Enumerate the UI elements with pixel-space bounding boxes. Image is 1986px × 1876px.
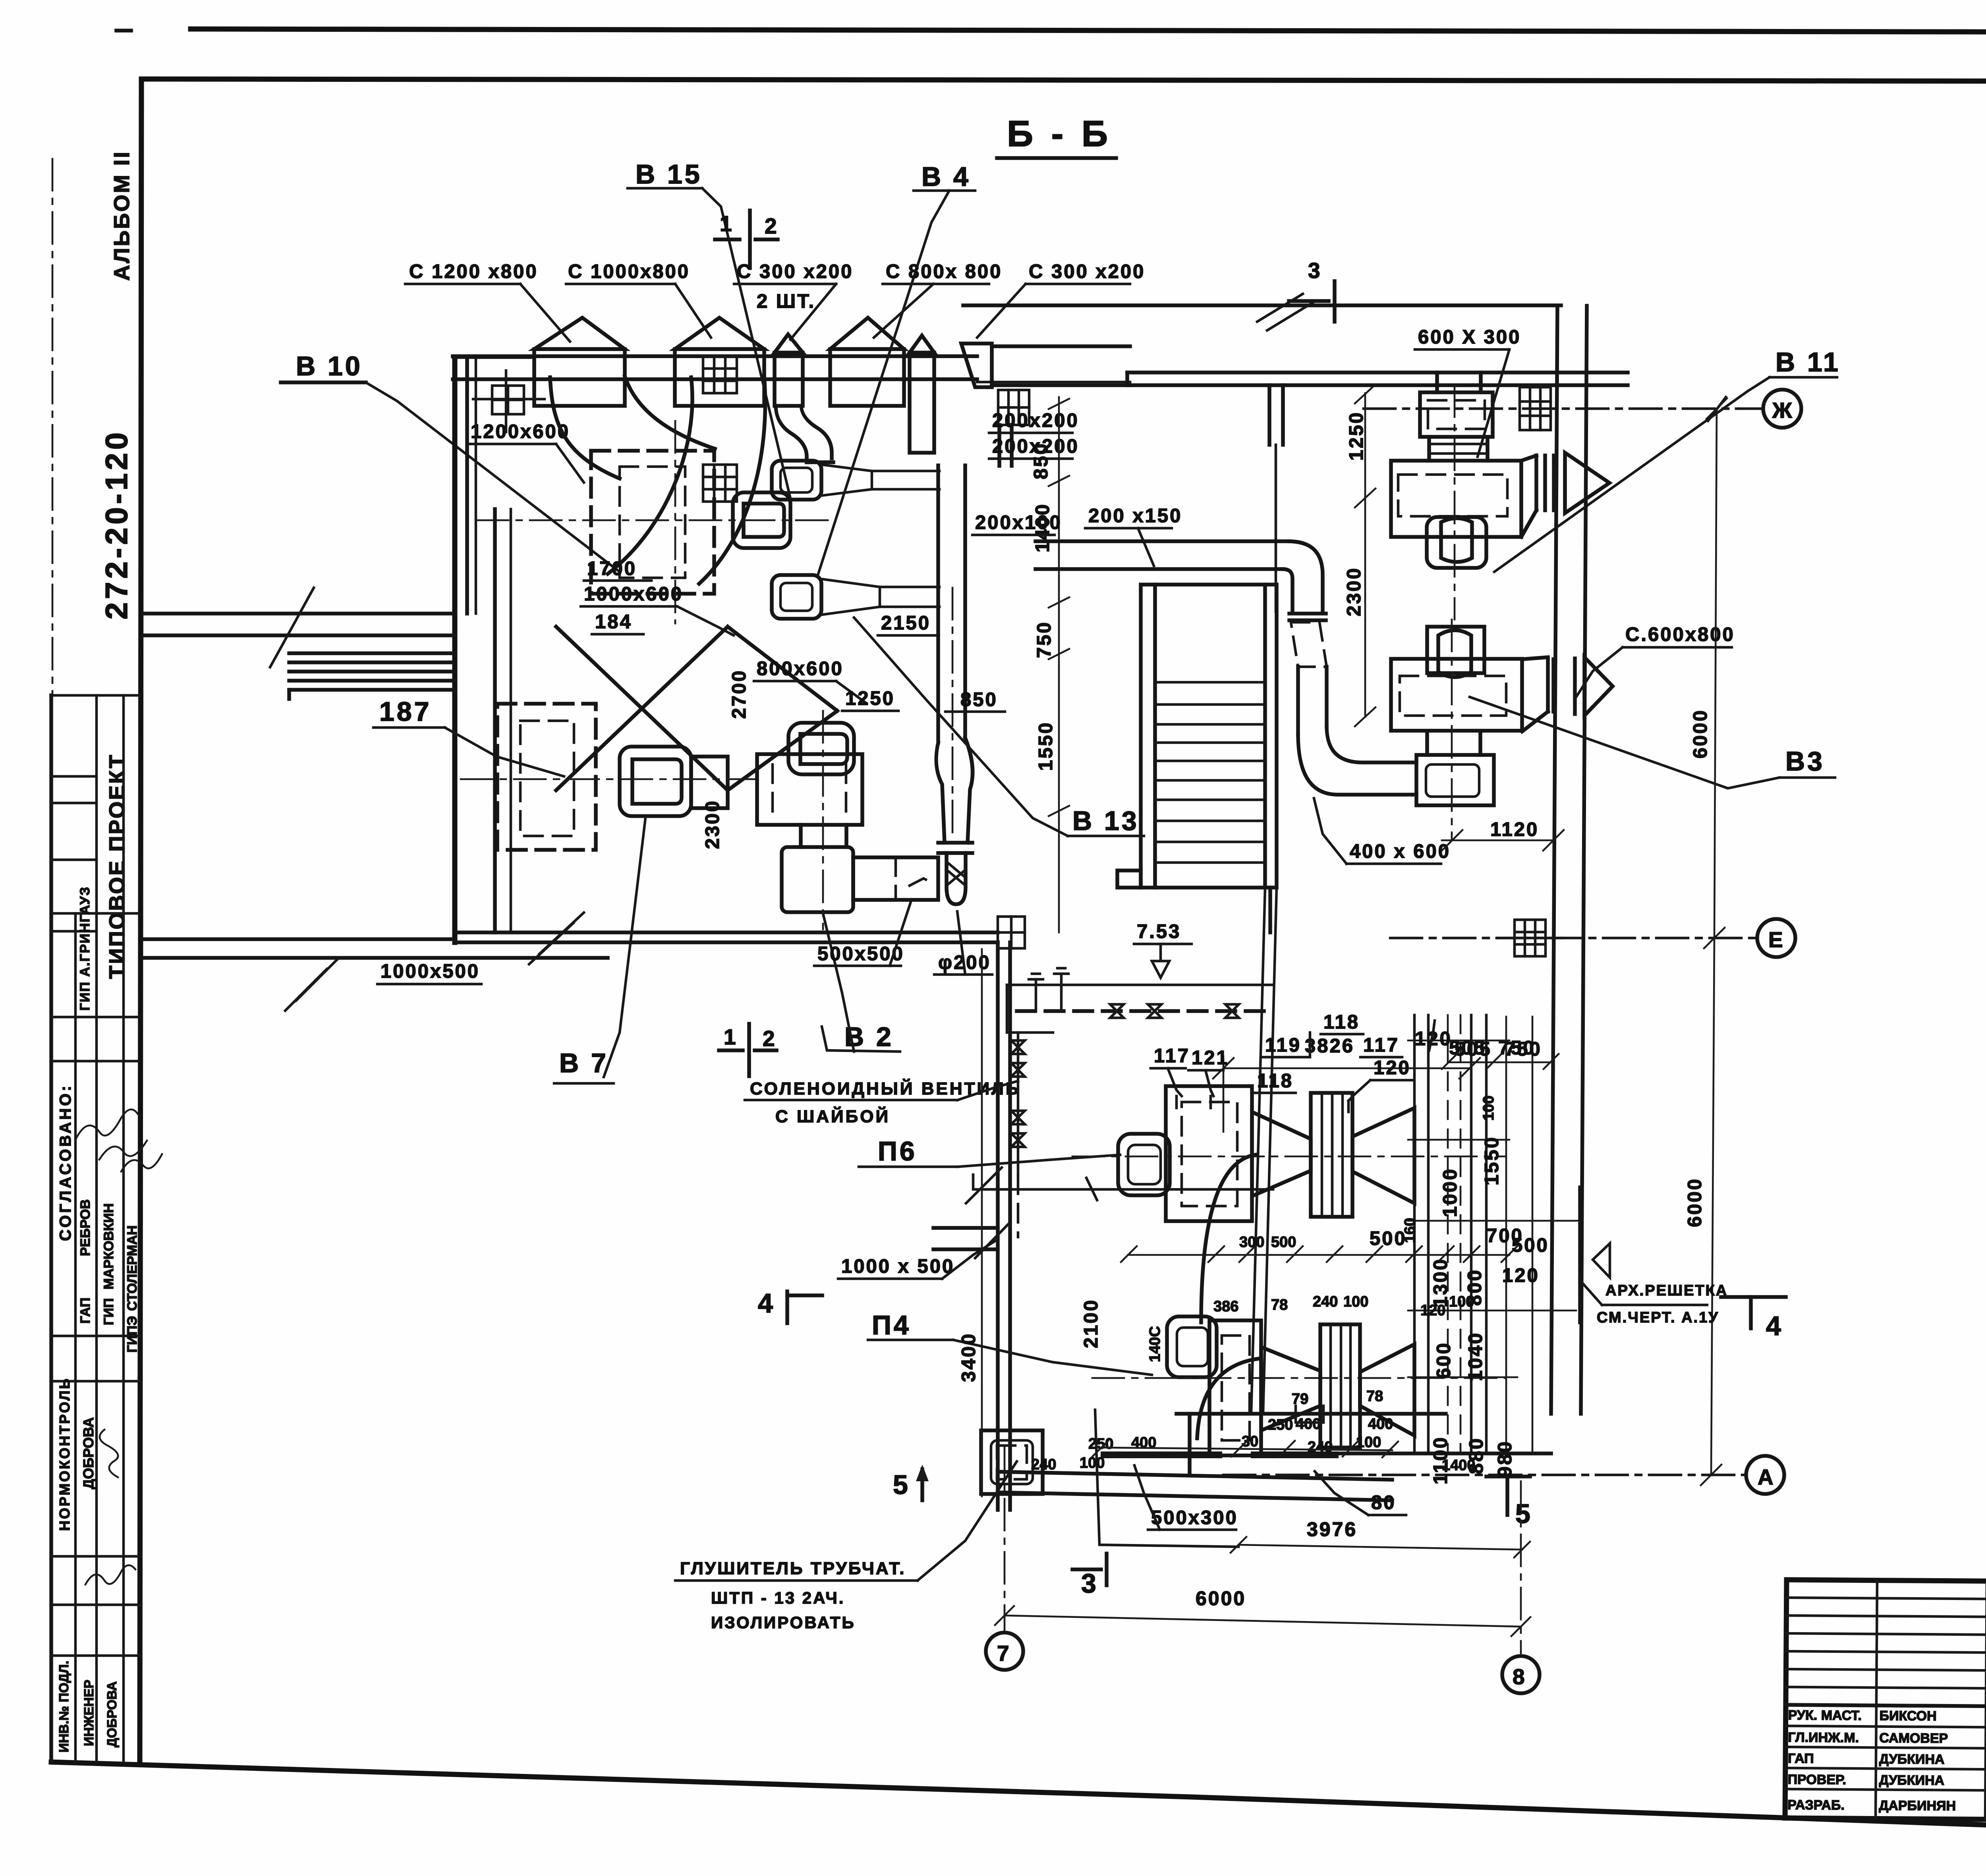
V3 bottom box	[1416, 755, 1494, 805]
svg-text:200 x150: 200 x150	[1088, 505, 1182, 527]
svg-text:1000x500: 1000x500	[381, 961, 480, 982]
bottom corridor double line	[143, 937, 455, 941]
svg-text:118: 118	[1323, 1011, 1360, 1033]
svg-text:ДУБКИНА: ДУБКИНА	[1879, 1752, 1945, 1767]
svg-text:АЛЬБОМ II: АЛЬБОМ II	[109, 151, 134, 281]
leader V11	[1494, 377, 1770, 572]
svg-text:2100: 2100	[1080, 1299, 1102, 1348]
svg-text:1550: 1550	[1035, 721, 1057, 771]
svg-text:С 1000x800: С 1000x800	[568, 261, 690, 282]
leader V10	[366, 382, 620, 572]
V4 riser duct stub	[997, 425, 1001, 466]
svg-text:4: 4	[1766, 1311, 1783, 1341]
svg-text:А: А	[1758, 1465, 1775, 1489]
svg-text:5: 5	[893, 1470, 910, 1500]
svg-text:АРХ.РЕШЕТКА: АРХ.РЕШЕТКА	[1605, 1282, 1728, 1299]
svg-text:7: 7	[997, 1641, 1011, 1666]
svg-text:79: 79	[1292, 1391, 1308, 1407]
svg-text:ИНВ.№ ПОДЛ.: ИНВ.№ ПОДЛ.	[56, 1661, 71, 1752]
svg-text:ДАРБИНЯН: ДАРБИНЯН	[1879, 1798, 1956, 1814]
flange joint below elbow	[1289, 612, 1326, 616]
roof slab line under hoods	[453, 354, 977, 358]
svg-text:ИНЖЕНЕР: ИНЖЕНЕР	[81, 1680, 96, 1746]
leader 187	[445, 728, 564, 776]
stamp row lines	[51, 694, 140, 697]
svg-text:78: 78	[1366, 1388, 1383, 1405]
title underline	[997, 156, 1116, 160]
V13 flange	[938, 841, 972, 845]
V13 riser jog	[936, 743, 945, 843]
V10 fan scroll	[733, 492, 790, 548]
left table verticals	[1876, 1581, 1877, 1819]
duct 200x150 elbow down	[1289, 541, 1323, 612]
deflector hood C800x800	[830, 318, 904, 349]
valve bowties on vertical pipe	[1011, 1040, 1025, 1147]
V11 discharge cone right	[1565, 453, 1609, 513]
svg-text:В 10: В 10	[296, 351, 363, 381]
P4 discharge cone	[1261, 1347, 1320, 1430]
left wall lower part with break	[287, 690, 291, 699]
svg-text:В 7: В 7	[559, 1048, 609, 1078]
svg-text:120: 120	[1374, 1057, 1411, 1079]
svg-text:СТОЛЕРМАН: СТОЛЕРМАН	[125, 1226, 140, 1311]
step wall up right	[1188, 1414, 1192, 1474]
V2 collar	[799, 825, 803, 847]
P6 intake arc	[1201, 1155, 1255, 1322]
svg-text:ГЛ.ИНЖ.М.: ГЛ.ИНЖ.М.	[1788, 1730, 1859, 1745]
svg-text:800: 800	[1464, 1268, 1486, 1306]
svg-text:1700: 1700	[587, 558, 637, 579]
second wall vertical pair	[493, 509, 497, 932]
deflector hood C300x200 no2	[910, 336, 934, 353]
svg-text:СОЛЕНОИДНЫЙ ВЕНТИЛЬ: СОЛЕНОИДНЫЙ ВЕНТИЛЬ	[750, 1078, 1020, 1098]
svg-text:ИЗОЛИРОВАТЬ: ИЗОЛИРОВАТЬ	[711, 1613, 856, 1632]
inner frame top border	[141, 79, 1986, 82]
cone V15	[821, 579, 880, 615]
svg-text:ГЛУШИТЕЛЬ ТРУБЧАТ.: ГЛУШИТЕЛЬ ТРУБЧАТ.	[680, 1559, 906, 1578]
P4 chamber box	[1209, 1320, 1261, 1455]
svg-text:РАЗРАБ.: РАЗРАБ.	[1787, 1797, 1845, 1813]
axis circle Zh	[1763, 390, 1801, 428]
P6 chamber box	[1166, 1086, 1252, 1221]
P4 intake arc	[1197, 1359, 1260, 1438]
staircase outer walls	[1141, 585, 1277, 888]
leader V13	[854, 618, 1068, 836]
svg-text:В 4: В 4	[922, 162, 971, 192]
svg-text:3826: 3826	[1305, 1035, 1354, 1057]
svg-text:1000 x 500: 1000 x 500	[841, 1256, 954, 1277]
svg-text:Б - Б: Б - Б	[1007, 114, 1112, 154]
stamp column verticals	[49, 695, 53, 1762]
svg-text:118: 118	[1257, 1070, 1293, 1092]
V3 centerline	[1451, 620, 1453, 840]
svg-text:С ШАЙБОЙ: С ШАЙБОЙ	[775, 1106, 890, 1126]
svg-text:РУК. МАСТ.: РУК. МАСТ.	[1788, 1708, 1862, 1723]
V10 centerline horizontal	[477, 519, 830, 521]
left table upper row lines	[1787, 1598, 1986, 1600]
svg-text:184: 184	[595, 611, 632, 633]
horizontal duct C300x200 to the right	[992, 344, 1130, 348]
leader to valve column	[958, 1081, 1018, 1100]
svg-text:1300: 1300	[1430, 1258, 1451, 1307]
V10 centerline vertical	[674, 421, 676, 623]
svg-text:2: 2	[763, 1026, 777, 1051]
sheet bottom border	[51, 1762, 1986, 1847]
svg-text:800x600: 800x600	[757, 658, 844, 679]
bundle cross dim lines	[1408, 1017, 1579, 1453]
signatures squiggles	[75, 1110, 139, 1140]
svg-text:250: 250	[1268, 1417, 1293, 1433]
duct 500x300 from muffler	[1101, 1451, 1222, 1458]
big sweep from hood2 to lower left	[608, 377, 692, 574]
svg-text:386: 386	[1213, 1298, 1238, 1315]
lower room bottom wall	[998, 1472, 1392, 1480]
V3 unit body	[1391, 659, 1522, 731]
dashed transition piece	[1291, 622, 1327, 667]
svg-text:240: 240	[1031, 1456, 1056, 1473]
svg-text:1400: 1400	[1442, 1457, 1476, 1474]
svg-text:ДУБКИНА: ДУБКИНА	[1879, 1773, 1945, 1788]
P6 discharge cone	[1252, 1112, 1311, 1196]
svg-text:2700: 2700	[728, 669, 750, 719]
upper ceiling line right part	[963, 303, 1561, 307]
dim chain P4 lower	[1096, 1448, 1392, 1450]
V2 upper box	[757, 754, 862, 825]
svg-text:МАРКОВКИН: МАРКОВКИН	[101, 1203, 116, 1289]
svg-text:500x300: 500x300	[1151, 1507, 1238, 1529]
svg-text:С 800x 800: С 800x 800	[886, 261, 1002, 282]
duct stub at left wall	[933, 1226, 998, 1230]
fan P6 scroll	[1118, 1134, 1170, 1195]
svg-text:2300: 2300	[702, 799, 723, 849]
axis circle 8	[1502, 1656, 1540, 1693]
svg-text:500: 500	[1271, 1234, 1296, 1251]
svg-text:ТИПОВОЕ ПРОЕКТ: ТИПОВОЕ ПРОЕКТ	[104, 753, 129, 979]
svg-text:1: 1	[720, 211, 734, 236]
axis tick Zh	[1708, 397, 1726, 421]
V3 fan oval	[1438, 630, 1471, 677]
big transition duct from hood1 S-sweep	[550, 377, 620, 479]
roof line continuation right	[977, 381, 1130, 384]
svg-text:ГАП: ГАП	[1788, 1751, 1814, 1766]
arch grille bar	[1578, 1187, 1582, 1322]
deflector hood C300x200 no1	[775, 334, 803, 353]
svg-text:4: 4	[758, 1288, 775, 1318]
axis circle 7	[986, 1633, 1023, 1670]
riser duct bundle verticals	[1414, 1015, 1486, 1453]
svg-text:С.600x800: С.600x800	[1625, 624, 1735, 645]
svg-text:2300: 2300	[1343, 567, 1365, 616]
V13 riser duct	[936, 465, 940, 743]
svg-text:НОРМОКОНТРОЛЬ: НОРМОКОНТРОЛЬ	[56, 1377, 73, 1531]
leader to muffler	[918, 1461, 1017, 1581]
svg-text:400: 400	[1368, 1416, 1393, 1432]
axis A circle	[1746, 1456, 1784, 1494]
svg-text:400 x 600: 400 x 600	[1350, 841, 1451, 862]
V7 centerline	[461, 778, 755, 780]
svg-text:РЕБРОВ: РЕБРОВ	[78, 1199, 93, 1256]
V11 transition to flex	[1521, 455, 1536, 461]
interior wall T vertical	[1267, 385, 1271, 445]
axis A dash-dot	[1223, 1474, 1746, 1476]
arch grille triangle	[1593, 1243, 1610, 1278]
flange square on axis E	[1497, 920, 1563, 956]
left chamber wall vertical double	[452, 357, 458, 942]
leader V4 down	[818, 191, 949, 574]
right room vertical walls	[1551, 306, 1557, 1414]
section mark T5	[1486, 1475, 1530, 1478]
svg-text:600: 600	[1433, 1341, 1455, 1379]
V11 upper collar through wall	[1435, 372, 1439, 392]
svg-text:ДОБРОВА: ДОБРОВА	[104, 1681, 119, 1747]
P6 expanding cone to risers	[1352, 1108, 1414, 1203]
axis 7 centerline	[1004, 1446, 1006, 1630]
svg-text:ГАП: ГАП	[78, 1297, 93, 1324]
svg-text:78: 78	[1271, 1297, 1288, 1313]
svg-text:ШТП - 13 2АЧ.: ШТП - 13 2АЧ.	[711, 1588, 845, 1607]
V4 riser flange square above roof	[998, 390, 1029, 425]
svg-text:120: 120	[1502, 1265, 1540, 1286]
svg-text:ГИПЭ: ГИПЭ	[125, 1316, 140, 1353]
svg-text:5: 5	[1515, 1499, 1533, 1529]
svg-text:300: 300	[1239, 1234, 1264, 1251]
break mark bottom corridor	[296, 959, 338, 1001]
svg-text:100: 100	[1356, 1434, 1381, 1451]
svg-text:3: 3	[1081, 1568, 1099, 1598]
V7 unit dashed casing	[497, 704, 596, 850]
S-duct top center	[776, 406, 807, 462]
svg-text:100: 100	[1480, 1096, 1497, 1121]
svg-text:750: 750	[1505, 1038, 1542, 1060]
svg-text:8: 8	[1513, 1664, 1526, 1689]
svg-text:3976: 3976	[1307, 1518, 1357, 1540]
axis 8 centerline	[1520, 1481, 1522, 1653]
svg-text:2150: 2150	[881, 612, 931, 634]
svg-text:400: 400	[1296, 1416, 1321, 1432]
svg-text:1250: 1250	[1346, 411, 1367, 461]
lower pipe run	[973, 1175, 1273, 1189]
svg-text:117: 117	[1363, 1035, 1399, 1056]
svg-text:119: 119	[1265, 1035, 1301, 1056]
flange grid square central upper	[703, 356, 737, 393]
left table lower row lines	[1786, 1726, 1986, 1728]
svg-text:187: 187	[379, 697, 431, 727]
small pipe drops to P6 box	[1175, 1096, 1178, 1108]
V3 bottom collar	[1425, 731, 1429, 755]
lower area floor line	[1177, 1412, 1446, 1416]
fold dash-dot line left margin	[52, 159, 54, 693]
cone V4	[821, 465, 872, 496]
V2 side rect	[853, 857, 938, 900]
svg-text:80: 80	[1371, 1492, 1396, 1513]
corridor upper line	[143, 612, 455, 616]
svg-text:6000: 6000	[1690, 709, 1711, 759]
svg-text:6000: 6000	[1196, 1587, 1246, 1610]
horizontal pipe pair	[1007, 984, 1273, 986]
svg-text:Е: Е	[1768, 927, 1785, 952]
svg-text:6000: 6000	[1684, 1177, 1706, 1227]
P4 flex connector box	[1320, 1324, 1360, 1448]
small fan unit V15 lower	[772, 575, 821, 619]
svg-text:1: 1	[724, 1025, 738, 1049]
svg-text:В 11: В 11	[1775, 347, 1841, 377]
X-cross duct run	[556, 627, 728, 790]
dobrova signature	[100, 1430, 118, 1477]
svg-text:Ж: Ж	[1772, 398, 1794, 423]
svg-text:1250: 1250	[845, 688, 895, 709]
svg-text:ГИП: ГИП	[101, 1298, 116, 1325]
small rect under 79	[1296, 1406, 1323, 1422]
svg-text:240: 240	[1313, 1293, 1338, 1310]
svg-text:750: 750	[1034, 621, 1055, 658]
pipe risers small	[1029, 974, 1043, 1011]
svg-text:117: 117	[1154, 1045, 1190, 1067]
svg-text:П6: П6	[878, 1136, 917, 1166]
deflector hood C1000x800	[675, 318, 764, 349]
svg-text:С 1200 x800: С 1200 x800	[409, 261, 538, 282]
svg-text:7.53: 7.53	[1137, 921, 1181, 942]
svg-text:В 15: В 15	[636, 159, 702, 189]
small fan unit V4 top	[772, 461, 821, 500]
svg-text:100: 100	[1343, 1293, 1368, 1310]
diag break mark near wall	[539, 913, 584, 954]
svg-text:ДОБРОВА: ДОБРОВА	[80, 1417, 97, 1489]
svg-text:200x100: 200x100	[975, 512, 1062, 533]
svg-text:3400: 3400	[958, 1332, 979, 1382]
deflector hood C1200x800	[534, 318, 625, 349]
svg-text:1040: 1040	[1465, 1332, 1486, 1381]
axis E dash-dot	[1390, 937, 1757, 940]
P4 centerline	[1092, 1377, 1505, 1379]
corridor break slash	[270, 588, 314, 667]
V11 vertical centerline	[1454, 385, 1456, 620]
svg-text:3: 3	[1308, 258, 1322, 283]
svg-text:САМОВЕР: САМОВЕР	[1879, 1731, 1948, 1746]
V2 centerline vertical	[822, 711, 824, 929]
svg-text:СОГЛАСОВАНО:: СОГЛАСОВАНО:	[57, 1083, 74, 1241]
P6 flex connector box	[1311, 1093, 1352, 1217]
V3 discharge cone right	[1584, 657, 1613, 716]
V11 flex connector	[1534, 455, 1538, 510]
svg-text:600 X 300: 600 X 300	[1418, 326, 1521, 348]
svg-text:1000x600: 1000x600	[584, 583, 683, 605]
svg-text:С 300 x200: С 300 x200	[737, 261, 853, 282]
V11 collar flanges	[1427, 437, 1431, 461]
top wall of chamber	[454, 355, 534, 359]
V10 unit dashed casing	[591, 451, 714, 594]
svg-text:160: 160	[1402, 1218, 1418, 1243]
leader 1000x600	[677, 606, 734, 635]
flange grid square central lower	[703, 465, 737, 502]
svg-text:200x200: 200x200	[992, 410, 1079, 431]
svg-text:272-20-120: 272-20-120	[99, 429, 134, 620]
leader V3 long	[1470, 697, 1779, 788]
svg-text:ГИП А.ГРИНГАУЗ: ГИП А.ГРИНГАУЗ	[77, 886, 93, 1011]
V11 fan below	[1427, 517, 1486, 568]
svg-text:980: 980	[1494, 1440, 1516, 1477]
chamber bottom wall	[455, 930, 998, 934]
sloped connector duct right of hoods	[961, 344, 992, 387]
vertical pipe with valves	[1017, 1033, 1020, 1175]
V3 collar upper	[1427, 627, 1484, 673]
svg-text:В 13: В 13	[1072, 806, 1139, 836]
duct 400x600 elbow	[1298, 735, 1416, 795]
inner frame left border	[140, 79, 141, 1763]
svg-text:ПРОВЕР.: ПРОВЕР.	[1788, 1772, 1847, 1787]
valve bowties on horizontal pipe	[1110, 1004, 1239, 1018]
leader V7 up	[604, 818, 645, 1077]
svg-text:1120: 1120	[1490, 819, 1539, 840]
V11 intake box 600x300	[1420, 392, 1493, 437]
lower room left wall	[996, 942, 1000, 1510]
fan P4 scroll	[1167, 1316, 1217, 1377]
V2 fan scroll	[788, 723, 854, 774]
small sig in mid row	[85, 1565, 135, 1585]
shaft wall pair center	[1251, 888, 1265, 1414]
svg-text:250: 250	[1088, 1436, 1113, 1452]
staircase treads	[1155, 682, 1265, 863]
V11 unit body	[1391, 461, 1521, 537]
axis E circle	[1757, 919, 1795, 957]
svg-text:С 300 x200: С 300 x200	[1029, 261, 1145, 282]
flange square on left wall	[473, 371, 545, 432]
svg-text:1550: 1550	[1481, 1136, 1503, 1185]
svg-text:505: 505	[1455, 1038, 1492, 1060]
svg-text:В3: В3	[1785, 746, 1825, 776]
V3 flex connector	[1546, 659, 1550, 712]
vertical dim line x2666	[1049, 397, 1069, 932]
leader P6	[958, 1155, 1120, 1167]
svg-text:2: 2	[765, 214, 779, 238]
svg-text:500: 500	[1512, 1235, 1549, 1256]
V13 centerline	[952, 588, 954, 834]
sheet outer top edge line	[191, 29, 1986, 33]
V7 side box	[691, 757, 728, 808]
right room top wall double	[1127, 371, 1628, 374]
V2 lower box	[782, 847, 853, 912]
axis Zh dash-dot line	[1364, 407, 1764, 410]
svg-text:БИКСОН: БИКСОН	[1880, 1708, 1937, 1724]
svg-text:140С: 140С	[1147, 1326, 1163, 1362]
dim chain P6 horizontal	[1128, 1254, 1509, 1256]
svg-text:500: 500	[1370, 1228, 1407, 1249]
leader V2 up	[823, 913, 854, 1052]
P4 expanding cone to risers	[1360, 1344, 1414, 1436]
leader V15 to riser	[702, 188, 790, 498]
flange grid square chamber corner	[998, 917, 1025, 948]
pipe elbow lower left	[1007, 985, 1053, 1033]
bundle bottom line	[1333, 1451, 1551, 1455]
flange square on axis Zh	[1520, 387, 1551, 430]
svg-text:СМ.ЧЕРТ. А.1У: СМ.ЧЕРТ. А.1У	[1597, 1309, 1719, 1326]
duct 400x600 vertical	[1296, 667, 1300, 735]
svg-text:30: 30	[1242, 1433, 1258, 1450]
svg-text:1000: 1000	[1439, 1168, 1461, 1217]
lower outer boundary	[1095, 1410, 1238, 1547]
svg-text:240: 240	[1308, 1439, 1333, 1455]
break marks near wall	[966, 1168, 1002, 1203]
svg-text:1200x600: 1200x600	[471, 421, 570, 442]
duct 200x150 horizontal run	[1036, 539, 1289, 543]
P6 centerline	[1072, 1156, 1505, 1158]
svg-text:2 ШТ.: 2 ШТ.	[757, 291, 815, 312]
svg-text:850: 850	[1030, 442, 1052, 479]
svg-text:121: 121	[1192, 1047, 1229, 1069]
section mark T4	[1721, 1295, 1786, 1299]
svg-text:П4: П4	[872, 1310, 911, 1340]
stair lower landing step	[1117, 870, 1141, 888]
V13 round bottom cap F200	[947, 853, 966, 904]
